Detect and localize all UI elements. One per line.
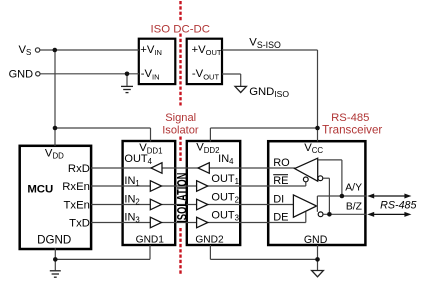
red isolation dashed line middle segment xyxy=(179,34,181,106)
junction VDD2 branch xyxy=(315,126,320,131)
receiver inverting input bubble xyxy=(318,176,323,181)
wire driver tip to A/Y xyxy=(316,196,319,212)
svg-text:GND: GND xyxy=(304,234,328,246)
buffer OUT2 right half xyxy=(197,199,208,210)
junction transceiver GND bottom xyxy=(315,257,320,262)
buffer IN2 left half xyxy=(150,199,161,210)
svg-text:TxEn: TxEn xyxy=(64,199,90,211)
block signal isolator right half xyxy=(187,141,240,245)
wire GND rail top xyxy=(40,74,139,86)
svg-text:GND: GND xyxy=(9,69,33,81)
svg-text:GND1: GND1 xyxy=(136,235,165,246)
wire receiver B input to B/Z xyxy=(323,178,329,214)
svg-text:RE: RE xyxy=(273,175,288,187)
block RS-485 transceiver xyxy=(268,141,365,245)
svg-text:RxEn: RxEn xyxy=(62,181,90,193)
wire row2 RxEn/IN1/OUT1/RE xyxy=(91,182,306,186)
wire row3 TxEn/IN2/OUT2/DI xyxy=(91,204,293,206)
svg-text:B/Z: B/Z xyxy=(346,202,363,213)
buffer OUT4 left half xyxy=(151,163,162,174)
block ISO DC-DC left half xyxy=(139,39,176,84)
ground GNDISO triangle xyxy=(235,86,246,92)
svg-text:RO: RO xyxy=(273,157,290,169)
svg-text:MCU: MCU xyxy=(27,184,53,196)
wire -VOUT to GNDISO xyxy=(222,74,241,86)
buffer IN4 right half xyxy=(198,163,209,174)
driver triangle U2B xyxy=(293,195,316,217)
arrow B/Z bus xyxy=(367,212,411,217)
red isolation dashed line bottom segment xyxy=(179,137,181,163)
svg-text:RS-485: RS-485 xyxy=(380,200,416,212)
junction VDD1 branch xyxy=(53,126,58,131)
wire row4 TxD/IN3/OUT3/DE xyxy=(91,211,306,223)
wire receiver A input route xyxy=(318,160,342,196)
svg-text:Isolator: Isolator xyxy=(162,124,199,136)
svg-text:ISOLATION: ISOLATION xyxy=(174,173,191,223)
svg-text:GND2: GND2 xyxy=(195,235,224,246)
wire B/Z line xyxy=(323,213,366,215)
receiver RE enable bubble xyxy=(303,177,308,182)
junction DGND bottom xyxy=(53,257,58,262)
svg-text:DE: DE xyxy=(273,211,288,223)
buffer OUT1 right half xyxy=(197,181,208,192)
driver inverting output bubble xyxy=(318,212,323,217)
svg-text:Signal: Signal xyxy=(165,112,196,124)
svg-text:RS-485: RS-485 xyxy=(331,112,369,124)
ground triangle under transceiver xyxy=(312,271,324,277)
wire VS rail top xyxy=(40,50,151,146)
wire A/Y line xyxy=(317,195,366,197)
buffer IN1 left half xyxy=(150,181,161,192)
wire row1 RxD/OUT4/IN4/RO xyxy=(91,167,295,169)
svg-text:Transceiver: Transceiver xyxy=(322,123,382,136)
ground earth under MCU xyxy=(50,271,61,277)
arrow A/Y bus xyxy=(367,194,411,199)
svg-text:DGND: DGND xyxy=(37,234,71,247)
buffer OUT3 right half xyxy=(197,217,208,228)
terminal GND xyxy=(36,72,40,76)
svg-text:DI: DI xyxy=(273,193,284,205)
block ISO DC-DC right half xyxy=(187,39,222,84)
wire GND2 to transceiver GND bottom xyxy=(210,245,317,271)
ground earth near -VIN xyxy=(121,86,133,92)
buffer IN3 left half xyxy=(150,217,161,228)
wire VS-ISO rail xyxy=(210,50,317,142)
red isolation dashed line lower segment xyxy=(179,228,181,275)
junction GND earth tap xyxy=(125,72,130,77)
wire DGND to GND1 bottom xyxy=(55,245,150,270)
svg-text:A/Y: A/Y xyxy=(345,183,362,194)
receiver triangle U2A xyxy=(295,158,318,181)
junction B/Z receiver tap xyxy=(327,212,332,217)
terminal VS xyxy=(35,48,39,52)
block signal isolator left half xyxy=(123,141,176,245)
red isolation dashed line top segment xyxy=(179,1,181,21)
svg-text:ISO DC-DC: ISO DC-DC xyxy=(150,23,209,35)
junction VS branch xyxy=(53,48,58,53)
svg-text:TxD: TxD xyxy=(69,217,90,229)
junction A/Y receiver tap xyxy=(340,194,345,199)
block MCU xyxy=(20,146,91,249)
svg-text:RxD: RxD xyxy=(68,163,90,175)
